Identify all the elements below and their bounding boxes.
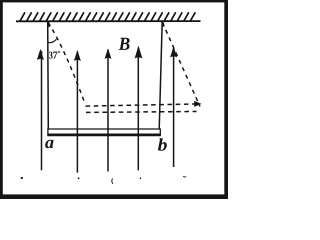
dashed rod arrow head bbox=[194, 101, 201, 107]
left suspension wire bbox=[47, 22, 50, 130]
frame border top bbox=[0, 0, 228, 2]
wire attachment blob left bbox=[48, 22, 49, 27]
field arrow 1 shaft bbox=[41, 51, 43, 171]
field arrow 1 head bbox=[37, 49, 44, 60]
label 37deg bbox=[49, 51, 60, 59]
label a bbox=[45, 140, 53, 148]
angle arc bbox=[48, 39, 57, 43]
field arrow 2 shaft bbox=[76, 52, 78, 173]
field arrow 5 head bbox=[170, 46, 177, 57]
rod ab thick bottom edge bbox=[47, 134, 160, 137]
dashed swung right wire bbox=[162, 23, 200, 107]
stray dot below arrow 4 bbox=[140, 177, 142, 179]
dashed swung left wire bbox=[48, 23, 84, 102]
frame border bottom bbox=[0, 194, 228, 199]
field arrow 3 head bbox=[105, 48, 112, 59]
stray mark right bottom bbox=[183, 175, 186, 178]
field arrow 4 head bbox=[135, 46, 143, 59]
field arrow 2 head bbox=[74, 50, 81, 61]
frame border left bbox=[0, 0, 3, 199]
right suspension wire bbox=[159, 22, 162, 130]
stray dot left bottom bbox=[21, 177, 23, 179]
dashed rod top edge bbox=[86, 104, 195, 106]
dashed rod bottom edge bbox=[86, 111, 197, 114]
wire attachment blob right bbox=[162, 22, 164, 27]
field arrow 5 shaft bbox=[173, 48, 175, 167]
label B bbox=[119, 38, 130, 50]
field arrow 3 shaft bbox=[107, 50, 109, 172]
ceiling hatching bbox=[20, 13, 195, 21]
rod ab outline bbox=[48, 129, 160, 136]
field arrow 4 shaft bbox=[137, 48, 139, 171]
label b bbox=[158, 138, 167, 151]
ceiling line bbox=[16, 20, 201, 22]
stray tick below arrow 3 bbox=[112, 179, 113, 184]
frame border right bbox=[224, 0, 228, 199]
stray dot below arrow 2 bbox=[78, 177, 80, 179]
